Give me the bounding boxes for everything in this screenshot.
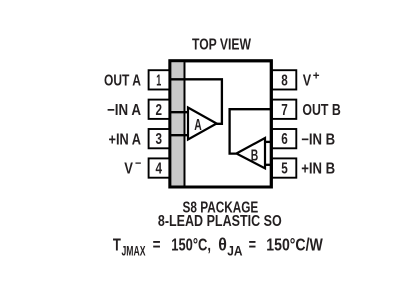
svg-text:T: T bbox=[113, 235, 121, 255]
svg-text:A: A bbox=[194, 117, 202, 134]
svg-text:+: + bbox=[313, 69, 320, 83]
svg-text:8-LEAD PLASTIC SO: 8-LEAD PLASTIC SO bbox=[158, 213, 282, 230]
svg-text:TOP VIEW: TOP VIEW bbox=[192, 37, 251, 54]
svg-text:150°C/W: 150°C/W bbox=[266, 235, 323, 255]
svg-text:3: 3 bbox=[155, 131, 162, 148]
svg-text:=: = bbox=[153, 235, 161, 255]
svg-text:6: 6 bbox=[281, 131, 288, 148]
svg-text:OUT B: OUT B bbox=[302, 102, 340, 119]
svg-text:5: 5 bbox=[281, 161, 288, 178]
svg-text:B: B bbox=[251, 147, 259, 164]
svg-text:−IN B: −IN B bbox=[301, 131, 335, 148]
svg-text:−: − bbox=[135, 156, 141, 170]
svg-text:2: 2 bbox=[155, 102, 162, 119]
svg-text:V: V bbox=[303, 73, 312, 90]
svg-text:OUT A: OUT A bbox=[104, 72, 141, 89]
svg-text:7: 7 bbox=[281, 102, 288, 119]
svg-text:JA: JA bbox=[227, 244, 243, 259]
svg-text:+IN A: +IN A bbox=[109, 131, 142, 148]
svg-text:−IN A: −IN A bbox=[107, 102, 141, 119]
svg-text:4: 4 bbox=[155, 161, 162, 178]
svg-text:JMAX: JMAX bbox=[122, 244, 146, 259]
svg-text:+IN B: +IN B bbox=[301, 161, 335, 178]
svg-text:8: 8 bbox=[281, 72, 288, 89]
svg-text:V: V bbox=[124, 161, 133, 178]
svg-text:1: 1 bbox=[156, 72, 161, 89]
svg-text:150°C,: 150°C, bbox=[171, 235, 211, 255]
svg-text:θ: θ bbox=[218, 235, 227, 255]
svg-text:=: = bbox=[249, 235, 256, 255]
